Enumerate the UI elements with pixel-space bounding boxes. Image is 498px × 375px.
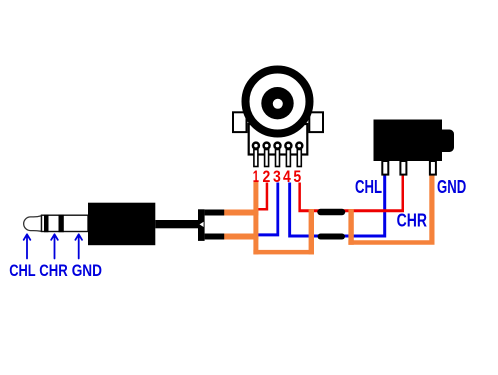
pot pin 5 leg xyxy=(297,150,301,167)
wire: lower orange arm from plug cable to pot pin1 node xyxy=(223,234,258,240)
svg-text:4: 4 xyxy=(283,168,291,186)
jack body xyxy=(374,120,443,162)
pot pin 1 eyelet xyxy=(253,143,259,149)
white notch at cable end xyxy=(200,222,204,227)
pot pin 3 eyelet xyxy=(275,143,281,149)
pot right solder tab xyxy=(309,112,323,132)
svg-text:GND: GND xyxy=(437,177,466,197)
wire: orange pot pin1 vertical down to ground U xyxy=(253,182,258,254)
wire: orange vertical #2 (ground riser at x351) xyxy=(348,209,353,245)
plug cable xyxy=(155,220,199,228)
wire: orange ground U bottom xyxy=(253,250,314,255)
wire: upper orange arm from plug cable to pot pin1 node xyxy=(223,210,258,216)
pot inner disc xyxy=(261,87,293,119)
pot pin 2 eyelet xyxy=(264,143,270,149)
wire: orange vertical #1 (ground riser at x311) xyxy=(309,209,314,254)
wire: blue pot pin3 jog to pin1 node xyxy=(256,183,279,237)
svg-text:CHR: CHR xyxy=(397,211,427,231)
plug ring separator 2 xyxy=(59,215,64,233)
pot body xyxy=(249,124,308,155)
plug body xyxy=(88,203,155,246)
cable sheath: upper black segment between pot and jack xyxy=(321,209,343,216)
pot pin 2 leg xyxy=(265,150,269,167)
jack pin 2 xyxy=(400,161,406,175)
wire: red run pot pin5 to jack pin2 (CHR) xyxy=(298,176,404,213)
jack pin 3 xyxy=(430,161,436,175)
jack pin 1 xyxy=(382,161,388,175)
pot left solder tab xyxy=(233,112,247,132)
plug shaft xyxy=(42,215,89,231)
pot pin 4 eyelet xyxy=(285,143,291,149)
plug ring separator 1 xyxy=(44,215,49,233)
svg-text:CHR: CHR xyxy=(39,261,68,280)
pot pin 5 eyelet xyxy=(296,143,302,149)
svg-text:5: 5 xyxy=(293,168,301,186)
svg-text:GND: GND xyxy=(72,261,102,280)
wire: blue run pot pin4 to jack pin1 (CHL) xyxy=(288,176,386,238)
pot pin 1 leg xyxy=(254,150,258,167)
jack barrel xyxy=(442,130,454,153)
svg-text:3: 3 xyxy=(273,168,281,186)
pot pin 4 leg xyxy=(286,150,290,167)
wire: red pot pin2 jog to pin1 node xyxy=(256,183,269,211)
cable fork lower arm (black) xyxy=(205,234,225,240)
svg-text:CHL: CHL xyxy=(9,261,36,280)
plug tip (3.5mm plug, left) xyxy=(24,216,42,232)
arrow to plug tip (CHL) xyxy=(24,234,31,258)
cable fork upper arm (black) xyxy=(205,210,225,216)
arrow to plug ring (CHR) xyxy=(51,234,58,258)
wire: orange ground run to jack pin3 (GND) xyxy=(348,176,434,245)
arrow to plug sleeve (GND) xyxy=(75,234,82,258)
pot center hole xyxy=(273,99,283,109)
cable fork vertical bar xyxy=(198,209,205,241)
pot shaft outer ring xyxy=(246,70,310,134)
svg-text:CHL: CHL xyxy=(355,177,382,197)
pot pin 3 leg xyxy=(276,150,280,167)
cable sheath: lower black segment between pot and jack xyxy=(321,234,343,240)
svg-text:1: 1 xyxy=(253,168,259,186)
svg-text:2: 2 xyxy=(263,168,271,186)
